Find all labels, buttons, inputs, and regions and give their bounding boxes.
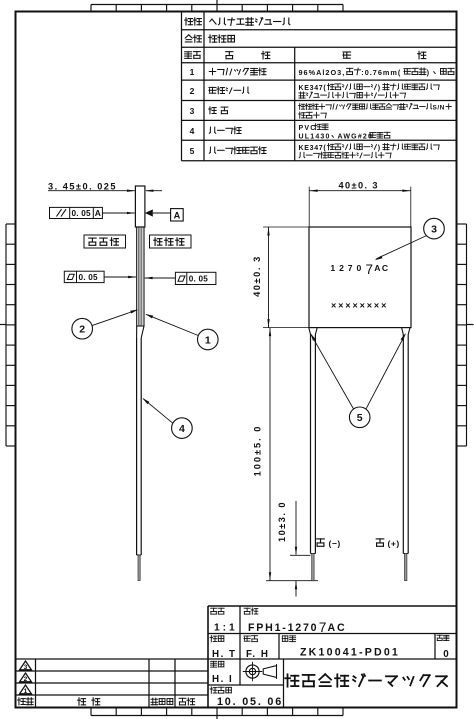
left lead wire insulation (310, 335, 312, 554)
lead wire side view stripped conductor (138, 555, 140, 581)
svg-text:F. H: F. H (246, 649, 269, 660)
dimension 40±0.3 left line (268, 227, 270, 328)
svg-text:1: 1 (330, 263, 335, 273)
svg-text:): ) (378, 85, 381, 92)
spec table 分類 row (185, 35, 192, 42)
datum A flag (145, 209, 153, 216)
title block 作成日 date cell (210, 687, 217, 693)
svg-text:5: 5 (357, 412, 363, 424)
svg-text:UL1430: UL1430 (299, 133, 331, 140)
svg-text:0: 0 (357, 263, 362, 273)
svg-text:A: A (374, 263, 380, 273)
right lead wire flare (402, 328, 404, 335)
svg-text:C: C (382, 263, 388, 273)
svg-text:3: 3 (24, 664, 28, 671)
left lead wire flare (309, 328, 311, 335)
balloon 2 (72, 318, 93, 339)
spec table column headers (185, 52, 192, 59)
revision table header row labels (18, 698, 26, 705)
svg-text:0. 05: 0. 05 (72, 209, 91, 218)
svg-text:40±0. 3: 40±0. 3 (339, 181, 379, 191)
title block 名称 name cell (244, 608, 250, 614)
svg-text:KE347(: KE347( (299, 145, 327, 152)
module side view: taper to lead (136, 326, 138, 338)
balloon 1 (198, 329, 219, 350)
revision mark triangle 2 (20, 673, 32, 682)
dimension 40±0.3 left: extension lines (263, 226, 309, 228)
title block 尺度 scale cell (211, 608, 217, 614)
third angle projection symbol (246, 665, 259, 678)
svg-text:A: A (174, 210, 181, 220)
parts specification table (182, 29, 457, 31)
svg-text:2: 2 (190, 86, 195, 96)
svg-text:): ) (427, 68, 430, 77)
svg-text:3. 45±0. 025: 3. 45±0. 025 (48, 181, 117, 191)
svg-text:2: 2 (339, 263, 344, 273)
svg-text:2: 2 (79, 324, 85, 336)
lead wire side view insulation (136, 338, 138, 555)
svg-text:1: 1 (205, 334, 211, 346)
spec table header 機種 row (185, 18, 193, 25)
label box 冷却側 (150, 235, 192, 248)
svg-text:ZK10041-PD01: ZK10041-PD01 (300, 647, 400, 659)
svg-text:2: 2 (24, 676, 28, 683)
company name 株式会社ジーマックス (285, 674, 298, 686)
bottom margin scale strip (91, 715, 343, 717)
module side view: ceramic/element section (137, 227, 144, 326)
svg-text:0. 05: 0. 05 (79, 273, 98, 282)
svg-text:3: 3 (190, 106, 195, 116)
left lead wire conductor (312, 554, 314, 581)
right lead wire conductor (405, 554, 407, 581)
svg-text:H. T: H. T (212, 649, 237, 660)
title block 製図 cell (211, 661, 217, 667)
title block 認可 cell (244, 636, 250, 641)
module side view: element core band (139, 228, 142, 326)
svg-text:1: 1 (24, 688, 28, 695)
svg-text:96%Al2O3,: 96%Al2O3, (299, 68, 346, 77)
title block 図番 drawing number cell (282, 636, 287, 641)
svg-text:A: A (95, 208, 101, 218)
svg-text:S/N: S/N (433, 105, 445, 112)
right centre tick (467, 324, 474, 326)
svg-text:FPH1-1270: FPH1-1270 (248, 622, 318, 634)
module side view: upper body outline (135, 186, 145, 227)
dimension 3.45 line and arrows (48, 190, 135, 192)
dimension 40±0.3 top line (309, 190, 411, 192)
svg-text:): ) (378, 145, 381, 152)
svg-text:10. 05. 06: 10. 05. 06 (217, 696, 283, 708)
wire polarity label black minus (317, 539, 325, 546)
svg-text:4: 4 (190, 126, 195, 136)
flatness left leader arrow (104, 276, 136, 278)
module front face 40x40 (309, 227, 411, 328)
dimension 100±5.0 line (269, 328, 271, 581)
svg-text:0: 0 (443, 649, 449, 660)
title block 版数 revision cell (437, 635, 442, 640)
svg-text:1:1: 1:1 (214, 623, 238, 634)
svg-text:7: 7 (319, 620, 327, 635)
top margin scale strip (91, 4, 343, 6)
extension line at insulation end (290, 554, 311, 556)
svg-text:1: 1 (190, 67, 195, 77)
svg-text:0. 05: 0. 05 (189, 275, 208, 284)
dimension 10±3.0 line (295, 501, 297, 555)
revision mark triangle 1 (20, 685, 32, 694)
svg-text:KE347(: KE347( (299, 85, 327, 92)
flatness tolerance frame right (175, 272, 216, 284)
left margin scale strip (5, 224, 7, 446)
svg-text:7: 7 (348, 263, 353, 273)
title block frame lines (208, 605, 457, 607)
svg-text:7: 7 (366, 262, 374, 277)
svg-text::0.76mm(: :0.76mm( (361, 68, 401, 77)
svg-text:H. I: H. I (212, 674, 233, 685)
parallelism tolerance frame //0.05A (50, 207, 103, 218)
balloon 3 (424, 218, 445, 239)
balloon 5 (349, 407, 370, 428)
flatness tolerance frame left (64, 271, 104, 282)
svg-text:40±0. 3: 40±0. 3 (252, 255, 262, 297)
extension line at wire conductor end (266, 580, 318, 582)
revision table lines (16, 670, 209, 672)
right lead wire insulation (402, 335, 404, 554)
wire polarity label red plus (376, 539, 384, 546)
svg-text:4: 4 (179, 423, 185, 435)
svg-text:3: 3 (431, 224, 437, 236)
svg-text:(−): (−) (329, 538, 341, 548)
svg-text:10±3. 0: 10±3. 0 (277, 501, 287, 542)
dimension 40±0.3 top: extension lines (308, 187, 310, 227)
svg-text:PVC: PVC (299, 125, 317, 132)
right margin scale strip (466, 224, 468, 446)
balloon 4 (172, 418, 193, 439)
svg-text:5: 5 (190, 146, 195, 156)
svg-text:AWG#20: AWG#20 (338, 133, 374, 140)
svg-text:××××××××: ×××××××× (331, 301, 388, 311)
parallelism leader arrow (102, 212, 134, 214)
bottom centre tick (216, 716, 218, 719)
svg-text:AC: AC (328, 622, 347, 634)
left centre tick (0, 324, 6, 326)
top centre tick (216, 0, 218, 5)
label box 放熱側 (84, 235, 126, 248)
svg-text:(+): (+) (388, 538, 400, 548)
title block 検図 cell (210, 635, 217, 641)
revision mark triangle 3 (20, 661, 32, 670)
flatness right leader arrow (145, 277, 176, 279)
svg-text:100±5. 0: 100±5. 0 (252, 425, 262, 477)
